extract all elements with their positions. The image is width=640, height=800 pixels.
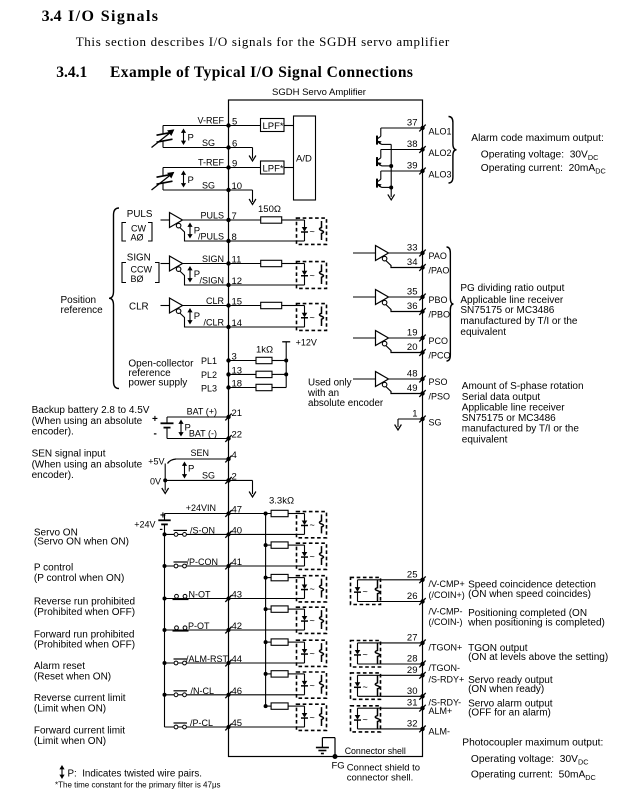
pin 2 slash <box>225 477 231 484</box>
pin 29 slash <box>419 672 425 679</box>
svg-text:49: 49 <box>407 383 418 394</box>
svg-text:0V: 0V <box>150 477 161 487</box>
wire to collector <box>380 150 382 158</box>
junction on ALO bus <box>389 164 393 168</box>
optocoupler PC2 (SIGN) <box>297 262 327 289</box>
svg-text:(ON when speed coincides): (ON when speed coincides) <box>468 589 591 600</box>
svg-text:3.3kΩ: 3.3kΩ <box>269 496 294 507</box>
svg-text:(When using an absolute: (When using an absolute <box>32 459 143 470</box>
bracket right CW <box>148 223 152 242</box>
svg-text:(ON at levels above the settin: (ON at levels above the setting) <box>468 652 608 663</box>
svg-text:T-REF: T-REF <box>198 158 225 168</box>
svg-text:(OFF for an alarm): (OFF for an alarm) <box>468 707 551 718</box>
resistor 3.3k (/ALM-RST) <box>271 639 288 645</box>
wire return to opto <box>229 284 297 286</box>
wire down <box>252 480 254 494</box>
bracket right CCW <box>155 263 159 283</box>
svg-text:Alarm code maximum output:: Alarm code maximum output: <box>471 133 604 144</box>
junction bus <box>264 576 268 580</box>
svg-text:FG: FG <box>332 761 345 772</box>
switch S5 (/ALM-RST) <box>165 662 229 664</box>
pin 43 dot <box>227 597 231 601</box>
pin 13 dot <box>226 372 230 376</box>
svg-text:equivalent: equivalent <box>462 434 508 445</box>
pin 26 slash <box>419 598 425 605</box>
wire 3.3k bus <box>265 514 267 708</box>
svg-text:4: 4 <box>232 450 237 461</box>
svg-text:PULS: PULS <box>127 209 153 220</box>
wire +24V bus <box>164 524 166 727</box>
svg-text:PG dividing ratio output: PG dividing ratio output <box>460 283 564 294</box>
wire resistor to +12V bus <box>272 387 286 389</box>
line driver U3 (PBO) <box>353 296 376 298</box>
wire /ALM-RST to opto <box>229 662 297 664</box>
junction +12V bus <box>284 372 288 376</box>
wire to collector <box>380 128 382 136</box>
photocoupler PC-O2 (TGON) <box>351 641 381 668</box>
wire resistor to +12V bus <box>272 360 286 362</box>
svg-text:power supply: power supply <box>128 378 187 389</box>
emitter wire to bus <box>382 165 392 167</box>
svg-text:PL2: PL2 <box>201 370 217 380</box>
svg-text:37: 37 <box>407 118 418 129</box>
ALO common ground arrow <box>388 194 395 200</box>
optocoupler PC-DI2 (/P-CON) <box>297 543 327 569</box>
wire SG to pin 10 <box>163 189 229 191</box>
svg-text:*The time constant for the pri: *The time constant for the primary filte… <box>55 781 221 790</box>
svg-text:(When using an absolute: (When using an absolute <box>32 416 143 427</box>
pin 39 slash <box>419 168 425 175</box>
wire pin2 internal <box>229 479 253 481</box>
wire pin to resistor <box>229 305 261 307</box>
wire resistor to opto <box>288 705 296 707</box>
optocoupler PC-DI5 (/ALM-RST) <box>297 640 327 666</box>
svg-text:(/COIN-): (/COIN-) <box>429 617 463 627</box>
wire +5V hook <box>168 459 177 464</box>
wire CLR to pin <box>183 305 229 307</box>
svg-text:+: + <box>160 511 166 522</box>
svg-text:manufactured by T/I or the: manufactured by T/I or the <box>462 424 580 435</box>
pin 44 slash <box>225 660 231 667</box>
wire resistor to opto <box>288 641 296 643</box>
svg-text:29: 29 <box>407 665 418 676</box>
svg-text:(/COIN+): (/COIN+) <box>429 590 465 600</box>
wire to ground <box>164 480 166 490</box>
junction bus <box>264 704 268 708</box>
pin 6 dot <box>226 145 230 149</box>
pin 31 dot <box>420 706 424 710</box>
+12V supply tick <box>282 341 290 343</box>
svg-text:/S-ON: /S-ON <box>190 525 215 535</box>
svg-text:3.4.1: 3.4.1 <box>56 64 87 81</box>
pin 34 slash <box>419 264 425 271</box>
svg-text:Applicable line receiver: Applicable line receiver <box>462 403 566 414</box>
pin 37 dot <box>420 126 424 130</box>
svg-text:~: ~ <box>310 584 315 594</box>
svg-text:22: 22 <box>232 430 243 441</box>
resistor 3.3k (/S-ON) <box>271 510 288 516</box>
svg-text:34: 34 <box>407 257 418 268</box>
pin 36 dot <box>420 309 424 313</box>
pin 43 slash <box>225 595 231 602</box>
svg-text:Alarm reset: Alarm reset <box>34 661 85 672</box>
pin 20 dot <box>420 350 424 354</box>
svg-text:connector shell.: connector shell. <box>347 773 414 784</box>
svg-text:P: P <box>188 175 194 186</box>
svg-text:I/O Signals: I/O Signals <box>68 8 159 25</box>
svg-text:A/D: A/D <box>296 154 312 165</box>
wire T-REF to pin 9 <box>163 167 229 169</box>
svg-text:(Prohibited when OFF): (Prohibited when OFF) <box>34 640 135 651</box>
LPF filter block 2 <box>261 161 285 174</box>
SG internal ground arrow <box>395 425 402 431</box>
svg-text:manufactured by T/I or the: manufactured by T/I or the <box>460 316 578 327</box>
svg-text:36: 36 <box>407 301 418 312</box>
pin 21 slash <box>225 414 231 421</box>
junction on ALO bus <box>389 186 393 190</box>
svg-text:ALO2: ALO2 <box>429 148 452 158</box>
svg-text:21: 21 <box>232 408 243 419</box>
svg-text:Example of Typical I/O Signal: Example of Typical I/O Signal Connection… <box>110 64 413 81</box>
svg-text:PBO: PBO <box>429 295 448 305</box>
junction 24V bus <box>163 597 167 601</box>
wire resistor to opto <box>282 219 297 221</box>
svg-text:/V-CMP+: /V-CMP+ <box>429 579 465 589</box>
potentiometer RV2 (torque reference) <box>162 168 164 176</box>
pin 25 dot <box>420 578 424 582</box>
junction 24V bus <box>163 693 167 697</box>
svg-text:~: ~ <box>363 587 368 597</box>
svg-text:/V-CMP-: /V-CMP- <box>429 607 463 617</box>
switch S1 (/S-ON) <box>165 533 229 535</box>
pin 19 slash <box>419 335 425 342</box>
svg-text:26: 26 <box>407 591 418 602</box>
pin 20 slash <box>419 349 425 356</box>
A/D converter block <box>294 116 316 200</box>
pin 10 dot <box>226 188 230 192</box>
emitter wire to bus <box>382 143 392 145</box>
line driver U4 (PCO) <box>353 337 376 339</box>
pin 37 slash <box>419 125 425 132</box>
wire pin6 internal <box>229 147 253 149</box>
svg-text:18: 18 <box>232 379 243 390</box>
pin 46 slash <box>225 691 231 698</box>
svg-text:/TGON-: /TGON- <box>429 663 461 673</box>
resistor 1k (pin 13) <box>256 371 272 377</box>
optocoupler PC-DI6 (/N-CL) <box>297 672 327 698</box>
wire resistor to opto <box>288 513 296 515</box>
pin 3 dot <box>226 358 230 362</box>
emitter wire to bus <box>382 186 392 188</box>
svg-text:SN75175 or MC3486: SN75175 or MC3486 <box>462 413 556 424</box>
svg-text:Amount of S-phase rotation: Amount of S-phase rotation <box>462 381 584 392</box>
optocoupler PC1 (PULS) <box>297 218 327 244</box>
line driver SIGN <box>170 256 183 271</box>
pin 40 slash <box>225 531 231 538</box>
pin 7 dot <box>226 218 230 222</box>
svg-text:P: P <box>194 311 200 322</box>
svg-text:33: 33 <box>407 243 418 254</box>
svg-text:SGDH Servo Amplifier: SGDH Servo Amplifier <box>272 87 366 98</box>
wire PL pin 13 <box>229 373 257 375</box>
svg-text:Serial data output: Serial data output <box>462 392 541 403</box>
junction bus <box>264 640 268 644</box>
optocoupler PC-DI3 (N-OT) <box>297 576 327 602</box>
svg-text:/ALM-RST: /ALM-RST <box>186 654 229 664</box>
pin 8 dot <box>226 239 230 243</box>
svg-text:P-OT: P-OT <box>188 621 210 631</box>
junction 0V <box>163 478 167 482</box>
twisted pair P (CLR) <box>187 308 192 325</box>
pin 42 dot <box>227 628 231 632</box>
pin 39 dot <box>420 169 424 173</box>
wire pin10 internal <box>229 189 253 191</box>
pin 15 dot <box>226 303 230 307</box>
svg-text:This section describes I/O sig: This section describes I/O signals for t… <box>76 34 450 49</box>
line driver U5 (PSO) <box>353 378 376 380</box>
svg-text:Operating current: 50mADC: Operating current: 50mADC <box>471 770 596 783</box>
twisted pair P (SEN) <box>182 462 187 479</box>
junction bus <box>264 607 268 611</box>
svg-text:P: P <box>188 464 194 475</box>
pin 1 dot <box>420 417 424 421</box>
svg-text:SIGN: SIGN <box>127 253 151 264</box>
wire 0V vertical <box>164 464 166 481</box>
svg-text:ALO1: ALO1 <box>429 127 452 137</box>
svg-text:LPF*: LPF* <box>263 121 284 132</box>
svg-text:(P control when ON): (P control when ON) <box>34 573 124 584</box>
twisted pair P (T-REF) <box>181 171 186 188</box>
svg-text:encoder).: encoder). <box>32 470 74 481</box>
resistor 1k (pin 3) <box>256 357 272 363</box>
wire ALO1 pin <box>381 127 423 129</box>
pin 5 dot <box>226 123 230 127</box>
svg-text:(Limit when ON): (Limit when ON) <box>34 736 106 747</box>
brace PG output group <box>447 247 454 361</box>
transistor Q1 (ALO1 open collector) <box>376 136 378 145</box>
wire resistor to opto <box>288 577 296 579</box>
svg-text:PULS: PULS <box>200 210 224 220</box>
svg-text:(Limit when ON): (Limit when ON) <box>34 704 106 715</box>
wire SIGN to pin <box>183 263 229 265</box>
wire ALO2 pin <box>381 149 423 151</box>
svg-text:47: 47 <box>232 505 243 516</box>
pin 49 dot <box>420 391 424 395</box>
svg-text:/PCO: /PCO <box>429 351 451 361</box>
svg-text:/N-CL: /N-CL <box>190 686 214 696</box>
SGDH servo amplifier box U1 <box>229 100 423 757</box>
wire +12V bus <box>285 342 287 388</box>
wire bus to resistor <box>266 705 272 707</box>
svg-text:SG: SG <box>202 471 215 481</box>
wire return to opto <box>229 326 297 328</box>
pin 44 dot <box>227 661 231 665</box>
svg-text:+24V: +24V <box>134 520 155 530</box>
wire resistor to opto <box>282 305 297 307</box>
pin 35 slash <box>419 294 425 301</box>
twisted pair P (BAT) <box>178 420 183 437</box>
pin 27 slash <box>419 640 425 647</box>
svg-text:~: ~ <box>310 713 315 723</box>
junction 24V bus <box>163 661 167 665</box>
svg-text:/PAO: /PAO <box>429 266 450 276</box>
svg-text:PSO: PSO <box>429 377 448 387</box>
svg-text:/PBO: /PBO <box>429 310 451 320</box>
pin 47 slash <box>225 510 231 517</box>
svg-text:3.4: 3.4 <box>42 8 62 25</box>
twisted pair P (V-REF) <box>181 129 186 146</box>
pin 42 slash <box>225 627 231 634</box>
resistor 150ohm (PC2 (SIGN)) <box>261 260 282 266</box>
LPF filter block 1 <box>261 119 285 132</box>
svg-text:Photocoupler maximum output:: Photocoupler maximum output: <box>462 738 603 749</box>
wire PL pin 3 <box>229 360 257 362</box>
wire /N-CL to opto <box>229 694 297 696</box>
svg-text:PAO: PAO <box>429 251 447 261</box>
switch S2 (/P-CON) <box>165 565 229 567</box>
svg-text:38: 38 <box>407 139 418 150</box>
svg-text:27: 27 <box>407 632 418 643</box>
resistor 3.3k (/P-CL) <box>271 703 288 709</box>
twisted pair symbol <box>59 765 64 779</box>
potentiometer RV1 (speed reference) <box>162 126 164 134</box>
optocoupler PC-DI4 (P-OT) <box>297 607 327 633</box>
frame ground FG <box>333 754 338 759</box>
wire down <box>252 148 254 159</box>
pin 45 slash <box>225 724 231 731</box>
svg-text:Forward current limit: Forward current limit <box>34 726 125 737</box>
line driver PULS <box>170 213 183 228</box>
pin 19 dot <box>420 336 424 340</box>
svg-text:P: Indicates twisted wire pai: P: Indicates twisted wire pairs. <box>68 769 203 780</box>
internal ground arrow <box>249 492 256 498</box>
bracket left CCW <box>122 263 126 283</box>
svg-text:~: ~ <box>310 227 315 237</box>
wire resistor to opto <box>288 673 296 675</box>
wire resistor to +12V bus <box>272 373 286 375</box>
wire SEN to pin 4 <box>176 458 229 460</box>
svg-text:28: 28 <box>407 654 418 665</box>
junction +12V bus <box>284 359 288 363</box>
svg-text:~: ~ <box>363 715 368 725</box>
0V ground arrow <box>162 488 169 494</box>
svg-text:~: ~ <box>310 649 315 659</box>
pin 22 dot <box>226 436 230 440</box>
battery BT2 (+24V) <box>164 514 166 521</box>
svg-text:Connector shell: Connector shell <box>345 746 406 756</box>
svg-text:CCW: CCW <box>131 265 153 275</box>
pin 36 slash <box>419 308 425 315</box>
svg-text:P: P <box>188 133 194 144</box>
svg-text:Applicable line receiver: Applicable line receiver <box>460 295 564 306</box>
line driver U2 (PAO) <box>353 252 376 254</box>
wire /P-CL to opto <box>229 726 297 728</box>
wire SG to pin 6 <box>163 147 229 149</box>
svg-text:SN75175 or MC3486: SN75175 or MC3486 <box>460 305 554 316</box>
svg-text:PL1: PL1 <box>201 356 217 366</box>
junction bus <box>264 672 268 676</box>
svg-text:20: 20 <box>407 342 418 353</box>
svg-text:+: + <box>152 414 158 425</box>
svg-text:PL3: PL3 <box>201 384 217 394</box>
pin 33 dot <box>420 251 424 255</box>
pin 41 dot <box>227 564 231 568</box>
photocoupler PC-O1 (V-CMP) <box>351 577 381 604</box>
pin 28 slash <box>419 661 425 668</box>
bracket left CW <box>122 223 126 242</box>
svg-text:absolute encoder: absolute encoder <box>308 398 384 409</box>
svg-text:3: 3 <box>232 352 237 363</box>
svg-text:ALO3: ALO3 <box>429 170 452 180</box>
svg-text:13: 13 <box>232 365 243 376</box>
wire pin to resistor <box>229 219 261 221</box>
pin 49 slash <box>419 390 425 397</box>
internal ground arrow <box>249 199 256 205</box>
transistor Q2 (ALO2 open collector) <box>376 157 378 166</box>
svg-text:1kΩ: 1kΩ <box>256 345 273 356</box>
svg-text:(Prohibited when OFF): (Prohibited when OFF) <box>34 607 135 618</box>
svg-text:ALM+: ALM+ <box>429 706 453 716</box>
wire bus to resistor <box>266 544 272 546</box>
svg-text:35: 35 <box>407 287 418 298</box>
pin 26 dot <box>420 599 424 603</box>
junction bus top <box>264 512 268 516</box>
svg-text:~: ~ <box>310 312 315 322</box>
svg-text:CLR: CLR <box>129 302 149 313</box>
svg-text:1: 1 <box>412 409 417 420</box>
svg-text:~: ~ <box>310 680 315 690</box>
svg-text:30: 30 <box>407 686 418 697</box>
optocoupler PC-DI1 (/S-ON) <box>297 512 327 538</box>
pin 32 slash <box>419 726 425 733</box>
pin 29 dot <box>420 673 424 677</box>
brace ALO group <box>449 117 457 184</box>
optocoupler PC-DI7 (/P-CL) <box>297 704 327 730</box>
svg-text:V-REF: V-REF <box>197 116 224 126</box>
pin 34 dot <box>420 265 424 269</box>
svg-text:/PULS: /PULS <box>198 231 224 241</box>
wire P-OT to opto <box>229 629 297 631</box>
svg-text:Operating current: 20mADC: Operating current: 20mADC <box>481 163 606 176</box>
pin 9 dot <box>226 165 230 169</box>
resistor 1k (pin 18) <box>256 384 272 390</box>
pin 32 dot <box>420 727 424 731</box>
svg-text:BØ: BØ <box>131 274 144 284</box>
pin 1 slash <box>419 416 425 423</box>
svg-text:-: - <box>154 429 157 440</box>
svg-text:25: 25 <box>407 569 418 580</box>
wire return to opto <box>229 240 297 242</box>
resistor 3.3k (/N-CL) <box>271 671 288 677</box>
wire resistor to opto <box>282 263 297 265</box>
battery BT1 (backup) <box>166 417 168 423</box>
svg-text:~: ~ <box>310 520 315 530</box>
svg-text:31: 31 <box>407 698 418 709</box>
resistor 3.3k (N-OT) <box>271 574 288 580</box>
wire LPF1 to A/D <box>284 125 294 127</box>
wire bus to resistor <box>266 577 272 579</box>
junction 24V bus <box>163 532 167 536</box>
svg-text:SEN: SEN <box>190 448 209 458</box>
svg-text:ALM-: ALM- <box>429 727 451 737</box>
wire bus to resistor <box>266 673 272 675</box>
svg-text:/PSO: /PSO <box>429 392 451 402</box>
svg-text:(Reset when ON): (Reset when ON) <box>34 672 111 683</box>
svg-text:150Ω: 150Ω <box>258 204 281 215</box>
wire pin5 to LPF1 <box>229 125 261 127</box>
svg-text:Reverse run prohibited: Reverse run prohibited <box>34 597 135 608</box>
svg-text:/P-CL: /P-CL <box>190 718 213 728</box>
